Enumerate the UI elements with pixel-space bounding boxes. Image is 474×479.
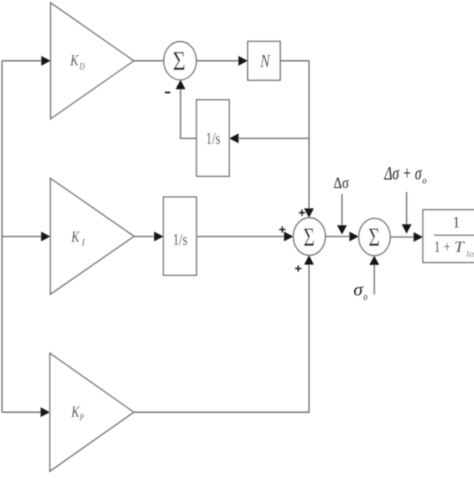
svg-text:1: 1 bbox=[452, 215, 460, 232]
svg-text:1 +: 1 + bbox=[434, 239, 451, 256]
wire 1/s (top) to S1 bottom bbox=[176, 80, 197, 139]
minus sign at S1 feedback input bbox=[165, 92, 171, 94]
wire S3 to lag block bbox=[390, 232, 423, 242]
wire bus to K_D bbox=[2, 56, 51, 66]
svg-text:Σ: Σ bbox=[303, 224, 314, 252]
svg-text:Δσ: Δσ bbox=[334, 175, 350, 192]
wire input bus (left vertical) bbox=[1, 61, 3, 412]
svg-text:σ: σ bbox=[353, 280, 364, 300]
wire bus to K_I bbox=[2, 232, 50, 242]
arrow delta-sigma to wire bbox=[337, 194, 347, 235]
label delta-sigma + sigma_o bbox=[384, 164, 427, 187]
wire S1 to N bbox=[196, 56, 247, 66]
wire bus to K_P bbox=[2, 407, 50, 417]
svg-text:Σ: Σ bbox=[173, 47, 186, 77]
svg-text:1/s: 1/s bbox=[206, 129, 221, 148]
plus sign at S2 bottom input bbox=[295, 265, 301, 271]
svg-text:K: K bbox=[71, 229, 81, 246]
svg-text:D: D bbox=[79, 61, 86, 71]
svg-text:o: o bbox=[422, 176, 426, 186]
wire S2 to S3 bbox=[325, 232, 358, 242]
block 1/s (top, derivative filter) bbox=[197, 100, 230, 177]
svg-text:P: P bbox=[79, 413, 84, 423]
wire K_P to S2 bottom bbox=[134, 255, 314, 412]
wire K_D to summer S1 bbox=[134, 60, 164, 62]
wire feedback branch to 1/s (top) bbox=[229, 134, 309, 144]
gain block K_P bbox=[50, 353, 134, 471]
arrow delta-sigma+sigma_o to wire bbox=[402, 192, 412, 234]
wire K_I to 1/s (middle) bbox=[134, 232, 163, 242]
gain block K_I bbox=[50, 178, 134, 294]
svg-text:T: T bbox=[454, 239, 465, 256]
summing junction S2 (main) bbox=[293, 218, 325, 256]
svg-text:Δσ + σ: Δσ + σ bbox=[384, 164, 422, 185]
wire sigma_o to S3 bottom bbox=[369, 256, 379, 295]
block 1/s (middle, integrator) bbox=[163, 197, 196, 275]
summing junction S1 (top) bbox=[164, 42, 197, 80]
wire N output down to S2 top bbox=[280, 61, 314, 218]
label sigma_o bbox=[353, 280, 367, 304]
svg-text:1/s: 1/s bbox=[173, 230, 188, 249]
svg-text:K: K bbox=[69, 53, 79, 70]
gain block K_D bbox=[51, 3, 134, 119]
svg-text:1cs: 1cs bbox=[466, 249, 474, 258]
summing junction S3 bbox=[359, 218, 391, 255]
svg-text:Σ: Σ bbox=[369, 224, 380, 252]
transfer block 1/(1+T1cs) bbox=[423, 210, 474, 263]
plus sign at S2 top input bbox=[299, 210, 305, 216]
svg-text:o: o bbox=[363, 292, 367, 303]
svg-text:N: N bbox=[259, 51, 270, 71]
block N bbox=[248, 41, 281, 80]
wire 1/s (middle) to S2 left bbox=[197, 232, 294, 242]
plus sign at S2 left input bbox=[279, 226, 285, 232]
